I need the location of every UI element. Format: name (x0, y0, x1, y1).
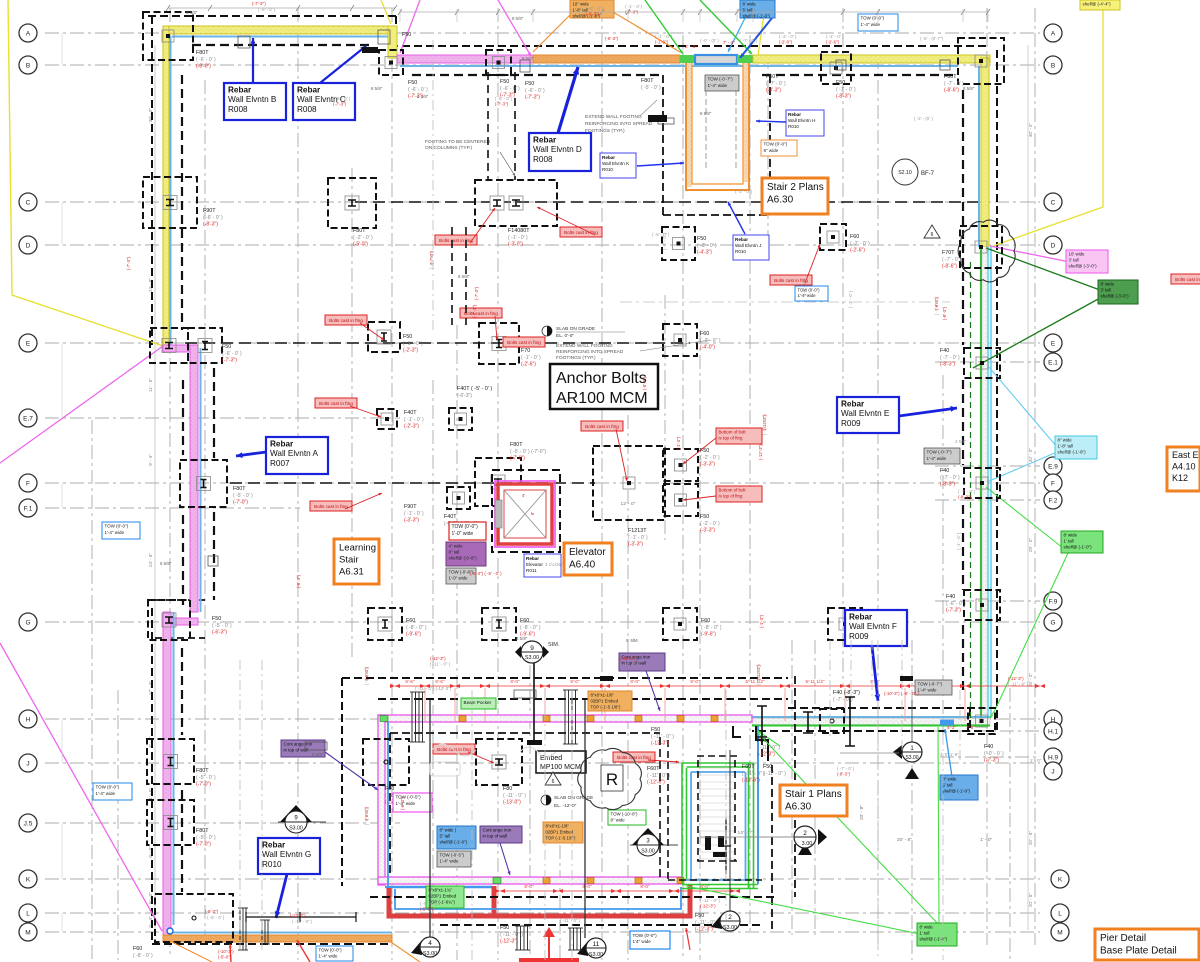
svg-text:( -5' - 0' ): ( -5' - 0' ) (364, 808, 369, 826)
wing outer dashed top (342, 678, 970, 886)
svg-text:(-6'-3"): (-6'-3") (205, 909, 219, 914)
triangle marker 6 top right (924, 225, 940, 238)
interior footing F50 row D left (662, 227, 695, 260)
svg-text:( -2' - 0' ): ( -2' - 0' ) (353, 235, 373, 241)
svg-text:( -5' - 0' ): ( -5' - 0' ) (196, 835, 216, 841)
svg-text:( -7' - 0' ): ( -7' - 0' ) (934, 298, 939, 316)
svg-text:TOW (0'-0"): TOW (0'-0") (452, 524, 479, 530)
elevator big dashed rect (492, 470, 560, 552)
red arrow 1 (470, 208, 495, 243)
stair1 green U wall (682, 763, 758, 889)
row G footing x482 F60 (482, 608, 516, 640)
svg-text:A: A (1051, 30, 1056, 37)
svg-text:( -5' - 0' ) (-7'-0"): ( -5' - 0' ) (-7'-0") (510, 449, 546, 455)
wing magenta band top (378, 715, 752, 722)
outer wall dashed line top-upper (148, 15, 396, 17)
svg-text:(-12'-6"): (-12'-6") (742, 778, 760, 784)
label F40 corner (984, 744, 1004, 764)
magenta arrow to top wall step (498, 0, 531, 56)
extra gray grid segments (240, 40, 960, 960)
label F50 pair a (700, 448, 720, 468)
callout Rebar Wall Elvntn K R010 (600, 153, 636, 178)
svg-text:SLAB ON GRADE: SLAB ON GRADE (554, 795, 593, 801)
cyan line under top-lower band (400, 65, 958, 67)
svg-text:2: 2 (803, 830, 807, 837)
orange leader bottom left (170, 940, 420, 962)
red box Bolts cast in ftng 5 (770, 275, 812, 285)
svg-text:8'-0": 8'-0" (524, 884, 534, 889)
svg-text:J.5: J.5 (24, 820, 33, 827)
elevator red dim texts (522, 493, 535, 515)
callout arrow H (756, 120, 786, 123)
svg-text:(-7'-3"): (-7'-3") (474, 286, 479, 300)
red dims corner BR (947, 725, 975, 730)
svg-text:G: G (1050, 619, 1055, 626)
callout arrow K (637, 162, 684, 166)
svg-text:F50: F50 (651, 727, 660, 733)
svg-text:8 5/8": 8 5/8" (516, 636, 528, 641)
label F60 row D (850, 234, 870, 254)
stair1 dashed east wall (794, 676, 796, 897)
wall band blue top (695-737) (695, 55, 737, 64)
svg-text:Bolts cast in ftng: Bolts cast in ftng (585, 424, 619, 429)
svg-text:(-4'-3"): (-4'-3") (472, 304, 477, 318)
footing F70T row D corner (960, 226, 1002, 268)
svg-text:1'-4" wide: 1'-4" wide (396, 801, 416, 806)
svg-text:F60: F60 (850, 234, 859, 240)
svg-text:F90T: F90T (203, 208, 216, 214)
red arrow 5 (805, 244, 820, 283)
svg-text:1'-4" wide: 1'-4" wide (927, 456, 947, 461)
callout Rebar Wall Elvntn B R008 (224, 83, 286, 120)
svg-text:(-7'-3"): (-7'-3") (984, 758, 999, 764)
svg-text:( -11' - 0" ): ( -11' - 0" ) (503, 793, 526, 799)
svg-text:2' - 6": 2' - 6" (685, 44, 697, 49)
wall band orange top (533-680) (533, 55, 680, 63)
svg-text:( -0' - 0' ): ( -0' - 0' ) (984, 751, 1004, 757)
label F14080T (508, 228, 530, 248)
svg-text:Learning: Learning (339, 543, 376, 554)
svg-text:shelf@ (-1'-0"): shelf@ (-1'-0") (440, 839, 468, 844)
cyan line right wall upper (978, 66, 980, 247)
red arrow bottom left wall2 (685, 928, 690, 950)
red box Bolts cast in ftng 4 (460, 308, 502, 318)
grid bubble F right (1044, 474, 1062, 492)
svg-text:( -5' - 0' ): ( -5' - 0' ) (364, 668, 369, 686)
svg-text:Wall Elvntn E: Wall Elvntn E (841, 409, 890, 418)
left wall footing row J F80T (147, 739, 194, 784)
inner wall dashed line right (962, 90, 964, 695)
svg-text:B: B (26, 62, 30, 69)
svg-text:F80: F80 (503, 786, 512, 792)
row F tie dashed line (230, 482, 595, 484)
grid bubble E right (1044, 334, 1062, 352)
bar group wing top mid (563, 690, 578, 744)
svg-text:Rebar: Rebar (262, 840, 286, 849)
purple arrow 3 (646, 671, 660, 711)
svg-text:Elevator: Elevator (569, 547, 606, 558)
svg-text:EL. -12'-0": EL. -12'-0" (554, 803, 577, 809)
svg-text:F50: F50 (408, 80, 417, 86)
red box Bolts cast in ftng 6 (503, 337, 545, 347)
callout Rebar Wall Elvntn D R008 (529, 133, 591, 171)
svg-text:F40: F40 (984, 744, 993, 750)
svg-text:(-12'-3"): (-12'-3") (757, 752, 775, 758)
label F80T row J5 (196, 828, 216, 848)
svg-text:(-12'-3"): (-12'-3") (430, 656, 446, 661)
label F60 G x368 (406, 618, 427, 638)
svg-text:A6.40: A6.40 (569, 560, 596, 571)
svg-text:F50: F50 (212, 616, 221, 622)
svg-text:( -6' - 0' ): ( -6' - 0' ) (203, 215, 223, 221)
svg-text:( -5' - 0' ): ( -5' - 0' ) (495, 96, 513, 101)
svg-text:ON COLUMNS (TYP.): ON COLUMNS (TYP.) (425, 145, 472, 151)
label F50 stair1 b (647, 766, 670, 786)
grid bubble L right (1051, 904, 1069, 922)
svg-text:Stair 1 Plans: Stair 1 Plans (785, 789, 842, 800)
svg-text:F50: F50 (757, 738, 766, 744)
red TOW box elevator (449, 522, 486, 540)
yellow line to step (381, 0, 391, 24)
svg-text:1'-4" wide: 1'-4" wide (708, 83, 728, 88)
svg-text:F70: F70 (521, 348, 530, 354)
svg-text:SIM.: SIM. (548, 642, 560, 648)
svg-text:(-8'-3"): (-8'-3") (837, 771, 851, 776)
wing magenta band left vertical (378, 715, 385, 885)
svg-text:C: C (1051, 199, 1056, 206)
top wall footing x485 F50 (486, 50, 511, 75)
svg-text:EXTEND WALL FOOTING: EXTEND WALL FOOTING (585, 114, 642, 120)
revision cloud top right (958, 220, 1015, 282)
svg-text:TOW (0'-0"): TOW (0'-0") (798, 287, 821, 292)
top wall footing x410 (379, 50, 403, 75)
svg-text:F50: F50 (695, 913, 704, 919)
svg-text:( -6' - 0' ): ( -6' - 0' ) (586, 6, 604, 11)
label F50 top x428 (408, 80, 428, 100)
dim 14-0 near pin2 (700, 830, 793, 837)
label F80T interior row C (353, 228, 373, 248)
svg-text:9' 6lM.: 9' 6lM. (626, 638, 639, 643)
label F80 wing b (503, 786, 526, 806)
blue plate on band BR (940, 720, 954, 726)
svg-text:(-9'-6"): (-9'-6") (701, 632, 716, 638)
label F1213T (628, 528, 648, 548)
svg-text:(-4'-0"): (-4'-0") (700, 345, 715, 351)
row C tie dashed line (355, 201, 980, 203)
blue shelf box top (740, 0, 775, 18)
svg-text:8'-0": 8'-0" (640, 884, 650, 889)
wall band pink top (397-533) (397, 55, 533, 63)
bottom-left corner footing (155, 894, 233, 942)
blue arrow from shelf box right (944, 729, 952, 777)
cyan line right wall lower (988, 247, 991, 718)
grid bubble F.9 right (1044, 592, 1062, 610)
svg-text:Bolts cast in ftng: Bolts cast in ftng (314, 504, 348, 509)
yellow line top to wall (758, 8, 765, 55)
grid bubble G right (1044, 613, 1062, 631)
svg-text:in top of wall: in top of wall (284, 748, 308, 753)
svg-text:E.1: E.1 (1048, 359, 1058, 366)
grid bubble J left (19, 754, 37, 772)
svg-text:Cont ange iron: Cont ange iron (483, 828, 512, 833)
svg-text:REINFORCING INTO SPREAD: REINFORCING INTO SPREAD (556, 349, 624, 355)
svg-text:(-7'-0"): (-7'-0") (510, 456, 525, 462)
interior footing F60 row E (663, 324, 697, 356)
right wall footing E.1 F40 (964, 348, 1000, 378)
label F50 top x500 (500, 79, 520, 99)
inner wall dashed line top (192, 45, 958, 75)
pink box Bottom of bolt b (716, 486, 762, 502)
svg-text:(-6'-3"): (-6'-3") (296, 574, 301, 588)
svg-text:6'-6": 6'-6" (435, 679, 445, 684)
F14080T second H symbol (490, 196, 504, 210)
svg-text:F50: F50 (500, 79, 509, 85)
bottom-right F40 footing (820, 709, 844, 733)
gray TOW box elevator (446, 568, 476, 584)
svg-text:(-8'-3"): (-8'-3") (203, 222, 218, 228)
svg-text:( -6' - 0' ): ( -6' - 0' ) (946, 601, 966, 607)
svg-text:shelf@ (-1'-0"): shelf@ (-1'-0") (943, 788, 971, 793)
svg-text:(-3'-3"): (-3'-3") (700, 462, 715, 468)
wing outer dashed bottom (370, 896, 778, 898)
magenta TOW box wing (393, 793, 432, 812)
svg-text:R010: R010 (262, 860, 282, 869)
svg-text:F40 (-8'-3"): F40 (-8'-3") (833, 690, 860, 696)
svg-text:FOOTINGS (TYP.): FOOTINGS (TYP.) (585, 128, 625, 134)
svg-text:shelf@ (-3'-0"): shelf@ (-3'-0") (1101, 294, 1130, 299)
callout arrow D (558, 67, 579, 133)
svg-text:1' - 0": 1' - 0" (1030, 758, 1042, 763)
svg-text:R009: R009 (849, 632, 869, 641)
svg-text:2: 2 (728, 914, 732, 921)
svg-text:8 5/8": 8 5/8" (371, 86, 383, 91)
svg-text:Rebar: Rebar (735, 237, 748, 242)
svg-text:D: D (26, 242, 31, 249)
svg-text:(-1'-3"): (-1'-3") (676, 436, 681, 450)
red box Bolts cast in ftng 7 (315, 398, 357, 408)
svg-text:A4.10: A4.10 (1172, 462, 1196, 472)
svg-text:Rebar: Rebar (526, 556, 539, 561)
svg-text:(-8'-3"): (-8'-3") (940, 482, 955, 488)
svg-text:TOW (-0'-7"): TOW (-0'-7") (918, 682, 943, 687)
svg-text:(-7'-3"): (-7'-3") (333, 101, 347, 106)
top dimension string (398, 9, 990, 302)
label F70 row E (521, 348, 541, 368)
svg-text:F.9: F.9 (1049, 598, 1058, 605)
svg-text:20' - 8": 20' - 8" (1028, 831, 1033, 846)
grid bubble F left (19, 474, 37, 492)
right dimension string (1028, 45, 1033, 930)
label F60T wing (742, 764, 765, 784)
label F90T lower (404, 504, 424, 524)
svg-text:3 1½/16": 3 1½/16" (545, 562, 563, 567)
interior footing F60 row D (820, 224, 846, 250)
svg-text:( -1' - 0' ): ( -1' - 0' ) (956, 532, 961, 550)
svg-text:( -1' - 0' ): ( -1' - 0' ) (625, 4, 643, 9)
callout Rebar Wall Elvntn F R009 (845, 610, 907, 646)
grid bubble J right (1044, 762, 1062, 780)
label F60T top-right (944, 74, 964, 94)
green embed box (426, 886, 464, 908)
svg-text:F50: F50 (500, 925, 509, 931)
gray TOW box bottom right (915, 680, 952, 695)
svg-text:MP100 MCM: MP100 MCM (540, 764, 581, 771)
svg-text:1'-4" wide: 1'-4" wide (319, 954, 339, 959)
svg-text:TOP (-1'-5 1/8"): TOP (-1'-5 1/8") (591, 704, 621, 709)
svg-text:20' - 8": 20' - 8" (897, 837, 912, 843)
svg-text:( -7' - 0' ): ( -7' - 0' ) (944, 81, 964, 87)
svg-text:20' - 8": 20' - 8" (1028, 893, 1033, 908)
elevator pit inner square with X (504, 490, 546, 538)
svg-text:F50: F50 (700, 448, 709, 454)
red rotated wall annotations (126, 256, 947, 810)
label F50 bottom x697 (695, 913, 718, 933)
bar group wing top-left (410, 692, 425, 742)
svg-text:TOW (0'-0"): TOW (0'-0") (764, 142, 788, 147)
red arrow bottom center (519, 927, 579, 962)
elevator gray hatch strip (495, 500, 502, 528)
svg-text:S3.00: S3.00 (423, 951, 437, 957)
cyan line 1 from shelf box (988, 366, 1057, 447)
stair2 dashed walls (663, 75, 770, 215)
svg-text:(-5'-0"): (-5'-0") (642, 376, 647, 390)
svg-text:( -7' - 0' ): ( -7' - 0' ) (836, 87, 856, 93)
label F80T stair2 left (641, 78, 661, 91)
svg-text:( -11' - 0" ): ( -11' - 0" ) (620, 661, 641, 666)
svg-text:(-7'-0"): (-7'-0") (233, 500, 248, 506)
svg-text:TOW (-10'-0"): TOW (-10'-0") (611, 812, 638, 817)
bar group bottom left corner (238, 908, 248, 950)
label F50 bottom x500 (500, 925, 523, 945)
svg-text:3.00: 3.00 (802, 841, 813, 847)
svg-text:(-6'-3"): (-6'-3") (457, 393, 472, 399)
red box Bolts cast in ftng 10 (433, 744, 475, 754)
wall band yellow jog at x392 (388, 26, 397, 58)
svg-text:F50: F50 (402, 32, 411, 38)
svg-text:( -5' - 0' ): ( -5' - 0' ) (212, 623, 232, 629)
svg-text:7'-8": 7'-8" (966, 725, 975, 730)
svg-text:S3.00: S3.00 (905, 755, 918, 761)
interior footing F40T upper-left (377, 409, 397, 429)
red box Bolts cast in ftng 11 (613, 752, 655, 762)
svg-text:Rebar: Rebar (270, 439, 294, 448)
svg-text:30' - 0": 30' - 0" (1028, 123, 1033, 138)
red arrow 9 (345, 493, 382, 509)
svg-text:Bottom of bolt: Bottom of bolt (719, 430, 747, 435)
svg-text:8" wide |: 8" wide | (440, 828, 456, 833)
grid bubble E left (19, 334, 37, 352)
svg-text:(-9'-6"): (-9'-6") (406, 632, 421, 638)
svg-text:(-10'-3"): (-10'-3") (218, 949, 234, 954)
orange line from shelf box R (613, 12, 680, 52)
svg-text:(-12'-3"): (-12'-3") (758, 444, 763, 460)
stair2 U leg hatch left (687, 63, 692, 187)
svg-text:(-12'-3"): (-12'-3") (620, 656, 636, 661)
svg-text:(-12'-3"): (-12'-3") (1008, 676, 1024, 681)
svg-text:8'-0": 8'-0" (582, 884, 592, 889)
wall band pink connector row G (163, 618, 198, 625)
bottom-left outer dashed (152, 943, 392, 945)
svg-text:( -11' - 0" ): ( -11' - 0" ) (763, 771, 786, 777)
svg-text:(-2'-0"): (-2'-0") (779, 39, 793, 44)
blue arrow top right steep (740, 18, 772, 58)
svg-text:8" wide: 8" wide (611, 818, 626, 823)
svg-text:S3.00: S3.00 (723, 925, 737, 931)
green arrow to stair1 corner (990, 710, 995, 718)
svg-text:10' wide: 10' wide (1069, 252, 1086, 257)
svg-text:(-5'-0"): (-5'-0") (218, 954, 232, 959)
green arrow top 2 (700, 0, 752, 54)
bar group wing bottom b (568, 928, 583, 950)
interior wall dashed pair (452, 72, 515, 325)
row G wall jog dashed (155, 600, 205, 638)
callout arrow B (251, 38, 256, 83)
elevator pit red walls (498, 484, 552, 544)
svg-text:8' wide: 8' wide (743, 2, 757, 7)
grid bubble F.2 right (1044, 491, 1062, 509)
dim pair bottom-left (205, 909, 313, 924)
svg-text:25' - 0": 25' - 0" (1028, 673, 1033, 688)
svg-text:( -6' - 0' ): ( -6' - 0' ) (333, 96, 351, 101)
svg-text:(-6'-3"): (-6'-3") (212, 630, 227, 636)
svg-text:F80T: F80T (353, 228, 366, 234)
svg-text:( -11' - 0" ): ( -11' - 0" ) (292, 919, 313, 924)
svg-text:Rebar: Rebar (841, 399, 865, 408)
svg-text:( -1' - 0' ): ( -1' - 0' ) (628, 535, 648, 541)
grid bubble L left (19, 904, 37, 922)
svg-text:E.7: E.7 (23, 415, 33, 422)
svg-text:R008: R008 (533, 155, 553, 164)
section marker 1 circle (893, 742, 922, 779)
svg-text:Bolts cast in ftng: Bolts cast in ftng (439, 238, 473, 243)
svg-text:F50T: F50T (766, 74, 779, 80)
grid bubble D left (19, 236, 37, 254)
blue TOW box bottom (630, 931, 670, 949)
label F50 row D left (697, 236, 717, 256)
svg-text:11: 11 (593, 941, 600, 948)
pink box Bottom of bolt a (716, 428, 762, 444)
gray dims BR (750, 805, 993, 843)
left wall footing row C F90T (143, 177, 197, 228)
grid bubble H left (19, 710, 37, 728)
outer wall dashed line top-lower (396, 16, 990, 46)
solid wall jog top (362, 47, 913, 681)
note extend wall footing (556, 340, 710, 361)
magenta diagonal to row E corner (0, 346, 163, 463)
svg-text:( -7' - 0' ): ( -7' - 0' ) (940, 475, 960, 481)
svg-text:F60T: F60T (944, 74, 957, 80)
svg-text:1'4" wide: 1'4" wide (633, 939, 652, 944)
anchor plates small squares (208, 30, 950, 750)
svg-text:( -1' - 0' ): ( -1' - 0' ) (508, 235, 528, 241)
blue shelf box wing (437, 826, 476, 849)
svg-text:(-12'-6"): (-12'-6") (647, 780, 665, 786)
orange TOW box (761, 140, 797, 156)
svg-text:8 5/8": 8 5/8" (512, 16, 524, 21)
svg-text:(-2'-6"): (-2'-6") (826, 39, 840, 44)
red box Bolts cast in ftng 8 (581, 421, 623, 431)
svg-text:( -6' - 0' ): ( -6' - 0' ) (222, 351, 242, 357)
svg-text:1'-0" wide: 1'-0" wide (449, 576, 469, 581)
row G footing x368 F60 (368, 608, 402, 640)
wing inner dashed right (659, 737, 661, 877)
svg-text:3' tall: 3' tall (1101, 288, 1111, 293)
left wall footing row G (148, 600, 190, 640)
solid wall steps stair1 head (733, 726, 768, 761)
blue shelf box bottom right (940, 775, 978, 800)
svg-text:(-3'-0"): (-3'-0") (508, 242, 523, 248)
blue TOW box bottom-left (316, 946, 353, 961)
